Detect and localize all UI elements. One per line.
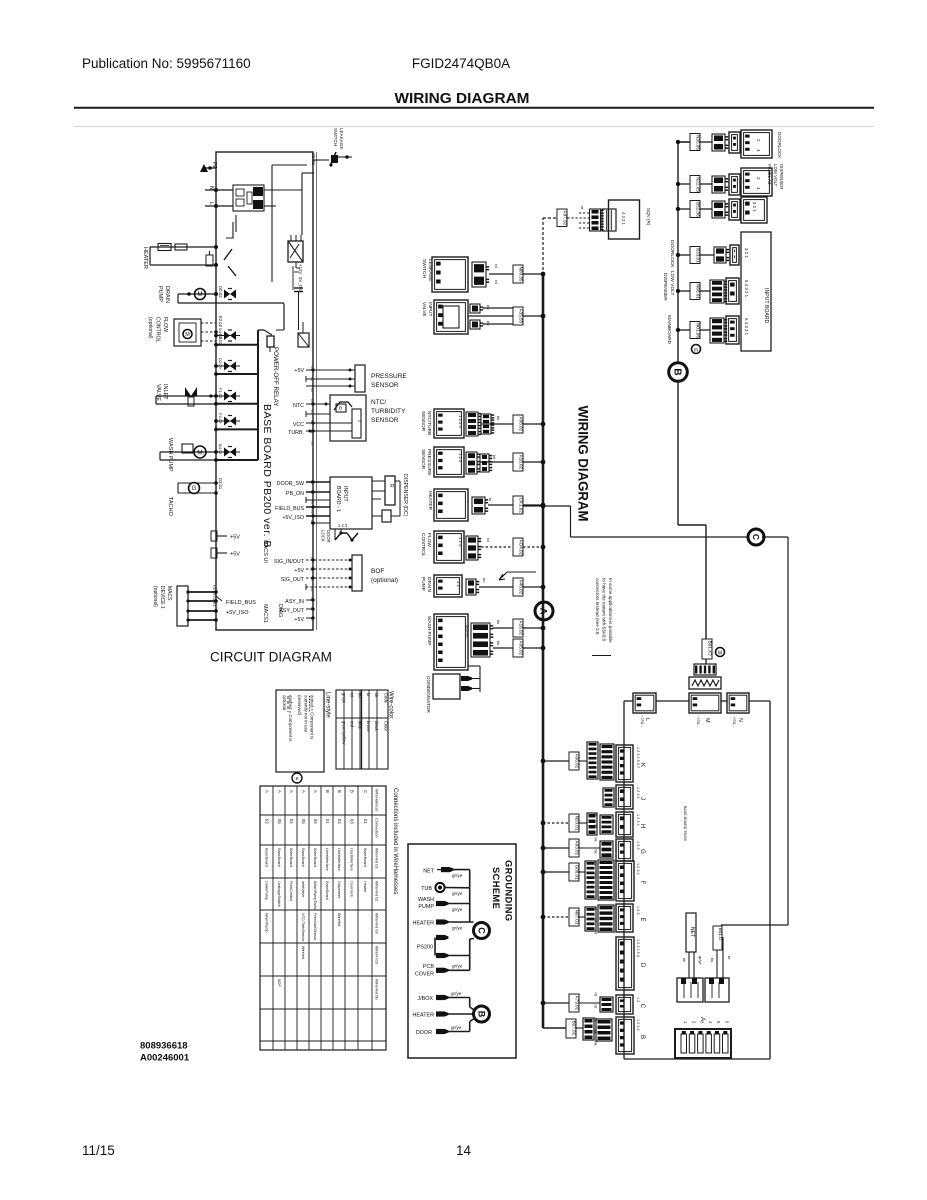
PRESSURE SENSOR label [420,449,432,475]
svg-text:dashed = Component is: dashed = Component is [288,695,293,742]
svg-text:B: B [639,1035,645,1039]
connector body for B52.06 [729,199,740,220]
svg-text:E2.02: E2.02 [218,316,223,328]
svg-text:currently not in use: currently not in use [303,695,308,733]
svg-text:BaseBoard: BaseBoard [277,848,281,867]
svg-text:R: R [388,484,394,488]
svg-text:06: 06 [313,819,318,824]
wire bus to H [541,821,569,826]
svg-text:L1: L1 [310,510,314,514]
svg-text:Dispenser: Dispenser [337,881,341,899]
svg-text:+5V: +5V [230,535,240,541]
MACS DEVICE 1 connector [177,586,188,626]
ASY pins [279,598,314,623]
relay driver box [298,322,309,347]
svg-text:rd: rd [494,264,499,268]
terminal N [205,186,233,192]
svg-text:NET: NET [689,927,695,937]
wire label box N20.01 [569,814,580,832]
svg-text:Wirefrot: Wirefrot [301,946,305,960]
label H with pins [636,814,645,828]
svg-text:HEATER: HEATER [413,921,435,927]
svg-text:DISPENSER: DISPENSER [662,273,668,301]
svg-text:1 2 3: 1 2 3 [338,523,348,528]
svg-text:FIELD_BUS: FIELD_BUS [275,506,304,512]
svg-text:B4.02: B4.02 [218,444,223,455]
svg-text:COVER: COVER [415,972,434,978]
svg-text:G: G [192,486,197,492]
svg-text:NTC/TurbSensor: NTC/TurbSensor [301,913,305,942]
svg-text:(optional): (optional) [147,317,153,339]
base board PB200 outline [216,152,317,630]
svg-text:K2: K2 [310,377,314,381]
svg-text:PUMP: PUMP [418,904,434,910]
svg-text:θ: θ [339,406,342,412]
svg-text:1 2 3 4: 1 2 3 4 [458,415,463,428]
svg-text:B: B [671,368,682,375]
svg-text:MACS UI: MACS UI [262,540,268,563]
svg-text:01: 01 [363,819,368,824]
svg-text:1 2 3 4: 1 2 3 4 [636,863,640,875]
svg-text:1 2: 1 2 [636,997,640,1002]
dispenser DC actuator [372,476,400,505]
harness comb K [579,742,598,779]
main wiring bus [543,275,566,1028]
svg-text:rd: rd [580,206,584,209]
svg-text:↑0701→: ↑0701→ [732,716,736,728]
svg-text:04: 04 [289,819,294,824]
svg-text:Wirefrot: Wirefrot [337,913,341,927]
grounding item DOOR [416,1019,474,1037]
wire-color table grid [336,690,388,769]
connector A big [675,1017,731,1058]
terminal E2.02 E3.02 labels [218,316,223,346]
svg-text:M: M [704,718,710,723]
wire B to base board TB200 [678,381,706,640]
svg-text:SCHEME: SCHEME [491,867,501,909]
svg-text:N68.01: N68.01 [696,284,701,299]
wire bus to E [541,915,569,920]
G comb [579,847,600,849]
plug for B33.01 [700,247,729,263]
svg-text:rd: rd [594,907,598,910]
input board outline right [741,232,771,351]
svg-text:ASY_OUT: ASY_OUT [279,608,304,614]
plug for N01.06 [700,318,727,343]
svg-text:(optional): (optional) [152,586,158,607]
svg-text:A08.02: A08.02 [519,417,524,432]
svg-text:1 2 3: 1 2 3 [636,906,640,914]
svg-text:gr/ye: gr/ye [452,891,463,896]
DRAIN PUMP pin numbers [456,581,461,587]
svg-text:C: C [751,534,761,540]
connections table header column [375,789,380,1000]
svg-text:In some applications is possib: In some applications is possible [608,578,613,643]
connections table row WireHnd 0b [277,979,281,987]
svg-text:A: A [301,790,306,793]
svg-text:InletValve: InletValve [301,881,305,897]
svg-text:A00246001: A00246001 [140,1052,190,1063]
svg-text:WASH PUMP: WASH PUMP [167,438,173,472]
connector H on TB200 [616,812,633,837]
svg-text:02: 02 [337,819,342,824]
svg-text:A18.02: A18.02 [519,455,524,470]
line-style legend box [276,690,324,772]
label D with pins [636,939,645,968]
svg-text:6 4 3 2 1: 6 4 3 2 1 [744,318,749,336]
svg-text:2: 2 [756,177,761,180]
svg-text:11/15: 11/15 [82,1143,115,1158]
svg-text:UserInterface: UserInterface [350,848,354,871]
heater fuse 1 [158,244,171,251]
supply connector pair right [705,978,729,1002]
power-off relay coil [264,304,284,353]
svg-text:DEVICE 1: DEVICE 1 [159,586,165,609]
svg-text:BaseBoard: BaseBoard [325,881,329,900]
line-style legend title [325,692,331,718]
NTC turbidity sensor box [330,395,366,441]
snubber capacitor bars [294,288,303,330]
connector N [727,693,749,728]
svg-text:1 2: 1 2 [456,581,461,587]
svg-text:+5V_ISO: +5V_ISO [282,515,304,521]
right distribution bus [678,142,690,363]
flow control label [147,317,168,342]
svg-text:WireHnd 02: WireHnd 02 [375,881,380,902]
svg-text:WASH PUMP: WASH PUMP [426,616,432,645]
connections table row WireHnd 02 [265,881,368,911]
+12V 5V_ISO labels [293,264,303,293]
svg-text:N07.01: N07.01 [575,910,580,925]
thermistor symbol [334,402,352,412]
pin labels H4-H1 [212,585,216,606]
harness comb E [579,907,596,931]
svg-text:1 2 3 4: 1 2 3 4 [636,814,640,826]
connector C on TB200 [616,995,633,1014]
svg-text:rd: rd [594,919,598,922]
svg-text:A: A [289,790,294,793]
svg-text:B33.01: B33.01 [696,248,701,263]
wire CK1.02 [488,503,545,508]
B group wire from bus corner [566,1018,594,1040]
wire label box G08.01 [569,863,580,881]
harness comb F [579,861,596,899]
svg-text:(optional): (optional) [371,577,398,584]
svg-text:INPUT: INPUT [427,302,433,316]
mainboard rotated label [666,315,672,345]
svg-text:J/BOX: J/BOX [417,996,433,1002]
connector M [689,693,721,728]
wash pump tacho tag [465,624,469,637]
svg-text:rd: rd [486,538,491,542]
wire A08.02 [481,422,545,427]
plug F [598,860,614,900]
flow control box [174,319,201,346]
grounding item HEATER 2 [413,1011,474,1018]
svg-text:L: L [208,202,214,205]
WASH PUMP plug [471,623,493,657]
svg-text:B: B [325,790,330,793]
svg-text:B07.01: B07.01 [572,1021,577,1036]
plug J [603,788,614,807]
triac opto driver box [288,235,303,268]
connections table title [392,788,398,894]
svg-text:1 2 3 4 5 6: 1 2 3 4 5 6 [636,939,640,957]
NTC pin [293,402,330,409]
inlet valve label [155,384,168,401]
wire A48.02 [479,585,545,590]
svg-text:connectors instead (see 2.5: connectors instead (see 2.5 [595,578,600,635]
+5V pullup pin J2 [211,531,240,541]
svg-text:G: G [639,849,645,854]
svg-text:bk: bk [594,838,598,842]
svg-text:+5V_ISO: +5V_ISO [226,610,249,616]
wire label box A18.02 [513,453,524,471]
drain pump label [157,286,170,303]
connector body for N68.01 [726,278,739,304]
svg-text:bu: bu [482,578,487,582]
pressure extra plug [480,454,492,472]
svg-text:BASE BOARD PB200 ver. B: BASE BOARD PB200 ver. B [261,404,273,548]
svg-text:SIG_IN/OUT: SIG_IN/OUT [274,559,305,565]
svg-text:red: red [349,721,354,728]
svg-text:A35.65: A35.65 [519,309,524,324]
svg-text:GROUNDING: GROUNDING [504,860,514,921]
wire-color table cells [341,693,388,745]
svg-text:FLOW: FLOW [162,317,168,332]
svg-text:CIRCUIT DIAGRAM: CIRCUIT DIAGRAM [210,650,332,665]
svg-text:dotted = Component is: dotted = Component is [310,695,315,740]
input valve plugs [470,304,513,329]
junction A circle [535,602,553,620]
grounding junction C circle [474,923,490,939]
grounding item TUB ring terminal [421,883,469,904]
svg-text:H4 H3 H2 H1: H4 H3 H2 H1 [212,585,216,606]
condensator plugs [461,666,480,692]
connector E on TB200 [616,904,633,932]
svg-text:SENSOR: SENSOR [420,411,426,432]
svg-text:HEATER: HEATER [413,1013,435,1019]
svg-text:M: M [198,292,203,298]
connections table row WireHarness letters [265,790,369,793]
wire A05.02 [493,646,545,651]
svg-text:A16.02: A16.02 [519,621,524,636]
svg-text:D3.01: D3.01 [218,478,223,490]
svg-text:B52.06: B52.06 [696,202,701,217]
SQV dashed wires to plug [568,206,590,228]
footer page number 14 [456,1143,472,1158]
svg-text:INLET: INLET [162,384,168,400]
door lock switch symbol [321,523,359,543]
svg-text:gr/ye: gr/ye [452,964,463,969]
svg-text:Heater: Heater [363,881,367,893]
dispenser box row1 [741,168,772,196]
circled e symbol [292,773,302,783]
plug E [598,905,614,932]
svg-text:DOOR: DOOR [326,530,331,543]
connector B on TB200 [616,1017,634,1054]
plug for B52.06 [700,201,728,218]
svg-text:LOW VOLT: LOW VOLT [773,164,778,187]
svg-text:+5V: +5V [294,568,304,574]
part numbers 808936618 / A00246001 [140,1041,190,1064]
NTC/TURB extra plug [481,414,494,434]
svg-text:N01.06: N01.06 [696,323,701,338]
svg-text:V3: V3 [310,441,314,445]
right vertical wire from C [721,537,788,925]
grounding item WASH PUMP [418,897,470,922]
MACS UI label [262,540,268,563]
svg-text:D4.03: D4.03 [218,328,223,339]
wire label box B52.06 [676,207,690,211]
svg-text:ASY_IN: ASY_IN [285,599,304,605]
svg-text:SQV (R): SQV (R) [646,208,651,226]
svg-text:NTC/TURB: NTC/TURB [426,411,432,435]
input board row2 pins [744,280,749,298]
svg-text:K5: K5 [310,410,314,414]
svg-text:CONDENSATOR: CONDENSATOR [425,676,431,713]
svg-text:Connection: Connection [375,818,380,838]
svg-text:CONTROL: CONTROL [155,317,161,342]
power-off relay inner bus [258,330,264,460]
header model number [412,56,510,71]
tacho generator wires [178,481,218,495]
svg-text:5 4 3 2 1: 5 4 3 2 1 [744,280,749,298]
BOF label [371,568,398,584]
svg-text:B01.G: B01.G [718,928,723,941]
svg-text:VALVE: VALVE [155,384,161,401]
svg-text:↑0701→: ↑0701→ [640,716,644,728]
svg-text:WashPumpTacho: WashPumpTacho [313,881,317,911]
base board TB200 label [683,806,687,841]
svg-text:H3: H3 [310,500,314,504]
svg-text:bk: bk [492,455,497,459]
svg-text:LEAKAGE: LEAKAGE [427,259,433,281]
svg-text:AO4.02: AO4.02 [519,540,524,556]
svg-text:BaseBoard: BaseBoard [313,848,317,867]
HEATER connector [434,489,468,521]
door lock rotated label [777,132,782,159]
svg-text:2: 2 [756,139,761,142]
MACS1 label [262,604,268,623]
FLOW CONTROL pin numbers [458,537,463,547]
svg-text:02: 02 [265,819,270,824]
svg-text:UserInterface: UserInterface [325,848,329,871]
svg-text:SENSOR: SENSOR [420,449,426,470]
svg-text:optional: optional [282,695,287,710]
FLOW CONTROL plug [466,536,481,560]
svg-text:MACS1: MACS1 [262,604,268,623]
svg-text:HEATER: HEATER [142,247,148,269]
INPUT VALVE connector [434,300,468,334]
svg-text:INPUT BOARD: INPUT BOARD [763,288,769,324]
B01.G label box [713,926,723,950]
dispenser DC small part [372,505,400,522]
grounding junction B circle [474,1006,490,1022]
svg-text:5V_ISO: 5V_ISO [298,277,303,293]
label J with pins [636,787,645,800]
svg-text:05: 05 [301,819,306,824]
connector L [633,693,656,728]
svg-text:E: E [639,917,645,921]
svg-text:rd: rd [349,693,354,697]
svg-text:rd: rd [594,825,598,828]
grounding item PS200 [417,935,474,958]
svg-text:3 2 1: 3 2 1 [752,202,757,212]
svg-text:WireHnd 0b: WireHnd 0b [375,979,380,1000]
svg-text:808936618: 808936618 [140,1041,188,1052]
svg-text:V1: V1 [310,420,314,424]
base board PB200 label [261,404,273,548]
wire bus to G [541,846,569,851]
svg-text:+5V: +5V [294,368,304,374]
svg-text:rd: rd [594,993,598,996]
plug G [600,841,613,858]
wire color tags middle column [482,264,501,645]
svg-text:gr/ye: gr/ye [452,907,463,912]
wire label box A08.02 [513,415,524,433]
svg-text:CONTROL: CONTROL [420,533,426,557]
svg-text:SENSOR: SENSOR [371,382,399,389]
svg-text:WireHnd 03: WireHnd 03 [375,913,380,934]
svg-text:K3: K3 [310,388,314,392]
triac row B4.02 [214,444,258,462]
svg-text:N: N [737,718,743,722]
svg-text:M: M [718,651,722,657]
svg-text:1 2 3: 1 2 3 [458,537,463,547]
svg-text:BOF: BOF [371,568,384,575]
svg-text:B01.X2: B01.X2 [708,641,713,657]
wire-color table title [388,691,394,718]
power-off relay label [272,347,279,406]
connections table row WireFrnOt [301,946,305,960]
svg-text:bk: bk [594,1018,598,1022]
base board TB200 outline [624,701,770,1059]
wiring diagram rotated title [576,406,592,522]
svg-text:Door lock: Door lock [350,881,354,897]
svg-text:to have the variant with 63A0.: to have the variant with 63A0.8 [602,578,607,642]
drain pump suppressor diode [224,289,236,300]
svg-text:SWITCH: SWITCH [421,259,427,278]
wire label box A06.01 [569,752,580,770]
SQV striped header [602,209,616,231]
CONDENSATOR label [425,676,431,713]
svg-text:DRAIN: DRAIN [164,286,170,303]
svg-text:WireFrnOt: WireFrnOt [375,946,380,965]
triac row F4.03 [214,413,258,431]
relay contact lever [226,215,236,238]
svg-text:INPUT: INPUT [342,486,348,502]
terminal L [205,202,233,208]
NTC/TURB SENSOR plug [466,412,481,436]
BOF bracket [352,555,362,591]
CONDENSATOR connector [433,674,460,699]
svg-text:TUB: TUB [421,886,432,892]
svg-text:↑0701→: ↑0701→ [696,716,700,728]
label E with pins [636,906,645,922]
svg-text:1 2 3: 1 2 3 [458,453,463,463]
inlet valve symbol [185,387,197,406]
svg-text:1: 1 [756,187,761,190]
drain pump wire arrow [499,572,536,580]
svg-text:1 2 3 4: 1 2 3 4 [636,1019,640,1031]
connector body for N35.05 [729,132,740,153]
wire label box A16.02 [513,619,524,637]
small m circle [692,345,701,354]
svg-text:DISPENSER: DISPENSER [779,164,784,189]
connector J on TB200 [616,785,633,809]
grounding scheme box [408,844,516,1058]
